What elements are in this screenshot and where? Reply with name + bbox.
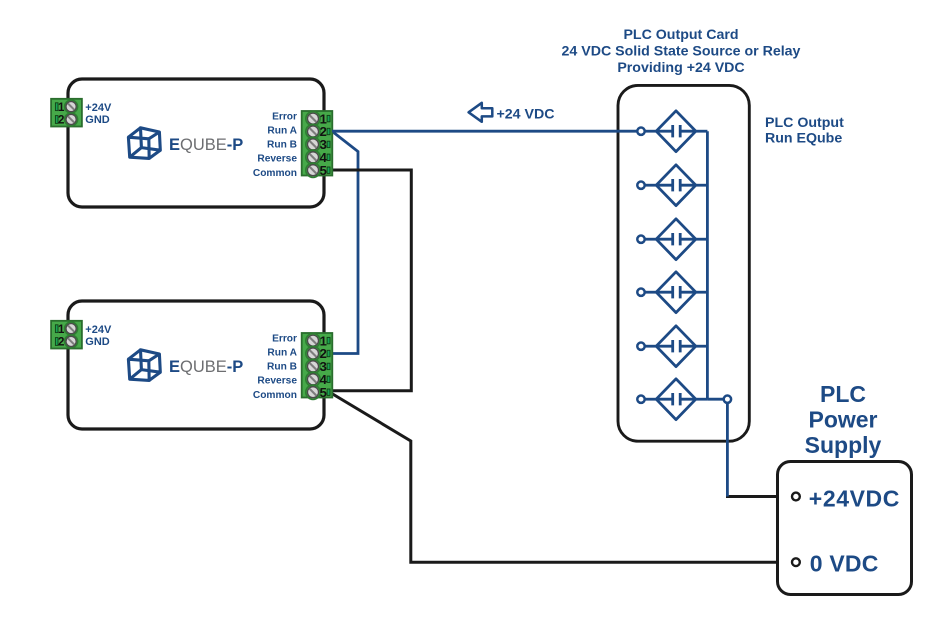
+24VDC terminal: [792, 493, 800, 501]
PLC output card body: [618, 85, 749, 441]
svg-text:Run EQube: Run EQube: [765, 131, 842, 147]
label PLC Output Run EQube: [765, 115, 844, 147]
svg-text:Power: Power: [808, 407, 877, 433]
J4 pin 3: [306, 359, 330, 374]
wire: U1 Run A to PLC output 1 (+24 VDC feed): [332, 130, 637, 133]
EQube logo cube (U2): [128, 350, 160, 381]
wire: U1 Common to U2 Common: [332, 170, 411, 391]
svg-text:EQUBE-P: EQUBE-P: [169, 136, 243, 154]
PLC output common bus: [706, 131, 709, 399]
svg-text:GND: GND: [85, 114, 110, 126]
0 VDC terminal: [792, 558, 800, 566]
wire: U2 Common to power supply 0 VDC: [332, 394, 792, 563]
J4 pin 1: [306, 333, 330, 348]
J3 pin 2: [55, 335, 77, 349]
J3 pin 1: [55, 322, 77, 336]
svg-text:24 VDC Solid State Source or R: 24 VDC Solid State Source or Relay: [562, 44, 801, 60]
PLC output 1: [637, 111, 707, 152]
J2 pin 4: [306, 150, 330, 165]
svg-text:+24V: +24V: [85, 102, 112, 114]
J2 pin 3: [306, 137, 330, 152]
module U2: [51, 301, 332, 429]
J1 pin 1: [55, 100, 77, 114]
EQube logo cube: [128, 128, 160, 159]
PLC output 6: [637, 379, 707, 420]
svg-text:Error: Error: [272, 333, 297, 344]
svg-text:PLC: PLC: [820, 381, 866, 407]
svg-text:Common: Common: [253, 390, 297, 401]
PLC card common terminal circle: [724, 396, 731, 403]
module U1 body: [68, 79, 324, 207]
terminal block J2 green body: [302, 111, 333, 176]
wire: PLC card common down toward +24VDC terminal: [726, 403, 729, 497]
PLC output 2: [637, 165, 707, 206]
J1 pin 2: [55, 113, 77, 127]
svg-text:Run A: Run A: [267, 125, 297, 136]
svg-text:+24V: +24V: [85, 324, 112, 336]
svg-text:2: 2: [58, 337, 64, 349]
svg-text:5: 5: [320, 385, 327, 400]
J2 pin 1: [306, 111, 330, 126]
svg-text:Providing +24 VDC: Providing +24 VDC: [617, 60, 744, 76]
PLC output 6 link to common terminal: [707, 398, 723, 401]
terminal block J1 green body: [51, 99, 82, 127]
svg-text:+24 VDC: +24 VDC: [497, 106, 555, 122]
terminal block J3 green body: [51, 321, 82, 349]
module U2 body: [68, 301, 324, 429]
svg-text:Common: Common: [253, 168, 297, 179]
svg-text:2: 2: [58, 115, 64, 127]
svg-text:EQUBE-P: EQUBE-P: [169, 358, 243, 376]
svg-text:0 VDC: 0 VDC: [810, 550, 879, 576]
J4 pin 2: [306, 346, 330, 361]
svg-text:PLC Output Card: PLC Output Card: [623, 27, 738, 43]
PLC output 5: [637, 326, 707, 367]
PLC output card title: [562, 27, 801, 76]
svg-text:+24VDC: +24VDC: [809, 485, 900, 511]
svg-text:Run B: Run B: [267, 140, 297, 151]
J4 pin 5: [306, 385, 330, 400]
svg-text:PLC Output: PLC Output: [765, 115, 844, 131]
arrow +24 VDC: [469, 103, 493, 122]
module U1: [51, 79, 332, 207]
terminal block J4 green body: [302, 333, 333, 398]
svg-text:Reverse: Reverse: [257, 376, 297, 387]
svg-text:5: 5: [320, 163, 327, 178]
svg-text:GND: GND: [85, 336, 110, 348]
PLC output 3: [637, 219, 707, 260]
J4 pin 4: [306, 372, 330, 387]
PLC power supply body: [778, 462, 912, 595]
J2 pin 2: [306, 124, 330, 139]
svg-text:Run B: Run B: [267, 362, 297, 373]
svg-text:Run A: Run A: [267, 347, 297, 358]
svg-text:Reverse: Reverse: [257, 154, 297, 165]
wire: U1 Run A branch down to U2 Run A: [332, 132, 358, 354]
PLC output 4: [637, 272, 707, 313]
svg-text:Error: Error: [272, 111, 297, 122]
J2 pin 5: [306, 163, 330, 178]
wire: card common into +24VDC terminal: [726, 495, 792, 498]
PLC power supply title: [805, 381, 882, 458]
svg-text:Supply: Supply: [805, 432, 882, 458]
